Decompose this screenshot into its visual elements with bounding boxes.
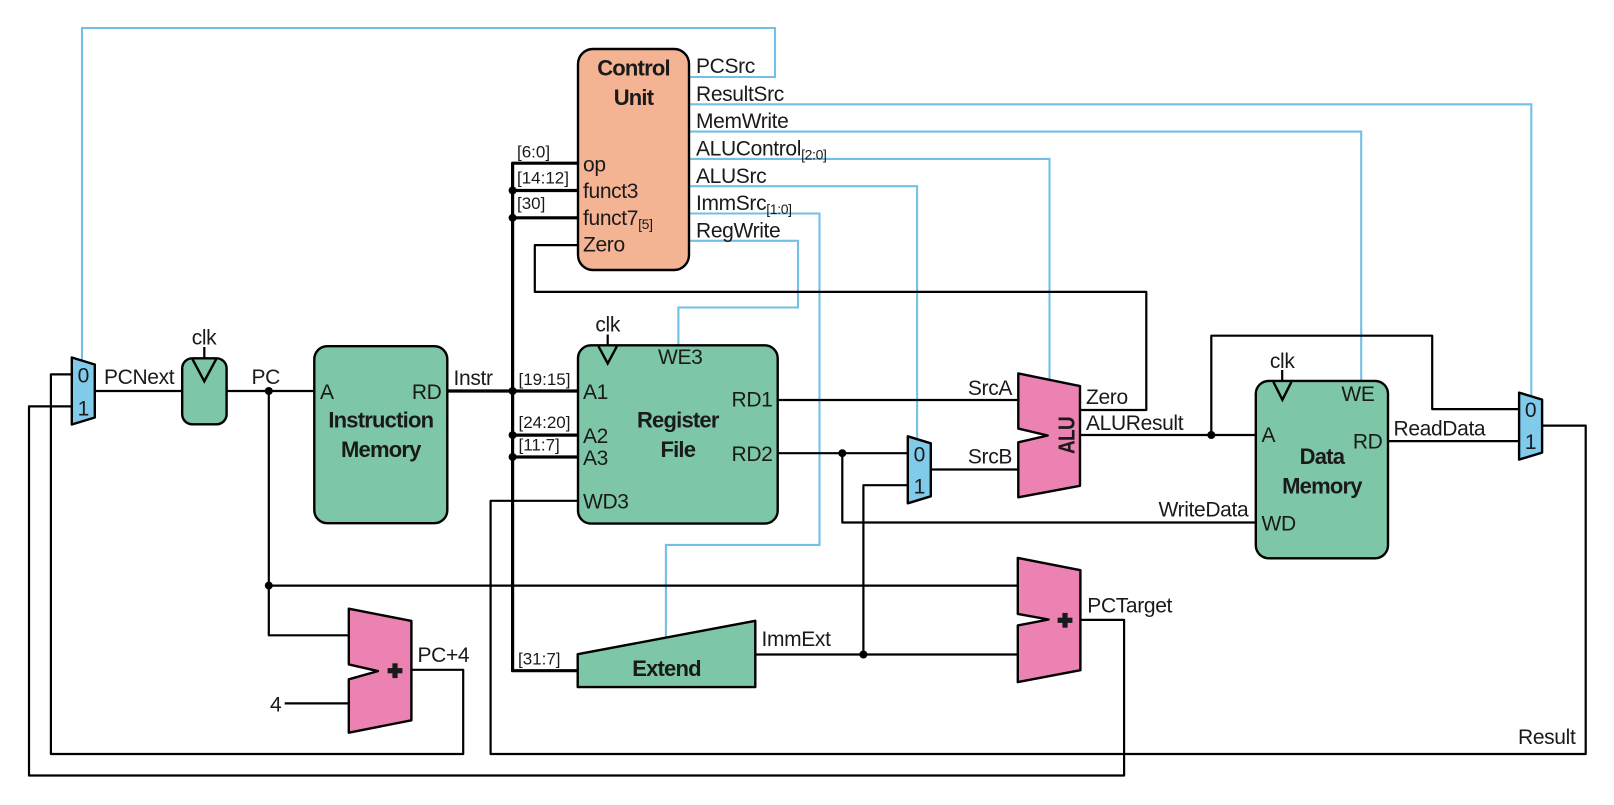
- svg-text:Extend: Extend: [632, 656, 701, 681]
- svg-text:[24:20]: [24:20]: [519, 413, 571, 432]
- svg-text:funct3: funct3: [583, 180, 638, 203]
- svg-text:RD: RD: [412, 381, 442, 404]
- svg-text:A: A: [1262, 424, 1276, 447]
- svg-text:0: 0: [78, 365, 89, 388]
- svg-text:PCSrc: PCSrc: [696, 55, 755, 78]
- svg-text:WE3: WE3: [658, 346, 702, 369]
- svg-text:[6:0]: [6:0]: [517, 143, 550, 162]
- svg-text:Result: Result: [1518, 726, 1576, 749]
- svg-text:A3: A3: [583, 447, 608, 470]
- svg-text:[14:12]: [14:12]: [517, 169, 569, 188]
- svg-text:RegWrite: RegWrite: [696, 220, 780, 243]
- svg-text:WD: WD: [1262, 513, 1296, 536]
- svg-text:PC: PC: [252, 366, 281, 389]
- svg-text:PC+4: PC+4: [418, 644, 470, 667]
- svg-text:WE: WE: [1341, 383, 1374, 406]
- svg-text:Control: Control: [597, 56, 670, 81]
- svg-text:[30]: [30]: [517, 194, 545, 213]
- svg-text:0: 0: [914, 443, 925, 466]
- svg-text:ResultSrc: ResultSrc: [696, 83, 784, 106]
- svg-text:op: op: [583, 154, 606, 177]
- svg-text:A1: A1: [583, 381, 608, 404]
- svg-text:Zero: Zero: [1086, 386, 1128, 409]
- svg-text:File: File: [660, 437, 695, 462]
- svg-text:SrcA: SrcA: [968, 377, 1012, 400]
- svg-text:PCNext: PCNext: [104, 366, 175, 389]
- svg-text:ALUSrc: ALUSrc: [696, 165, 766, 188]
- svg-text:Memory: Memory: [341, 437, 422, 462]
- svg-text:A: A: [320, 381, 334, 404]
- svg-text:4: 4: [270, 694, 282, 717]
- svg-text:1: 1: [78, 398, 89, 421]
- svg-text:clk: clk: [192, 327, 217, 350]
- svg-text:clk: clk: [1270, 350, 1295, 373]
- svg-text:Register: Register: [637, 408, 720, 433]
- svg-text:A2: A2: [583, 425, 608, 448]
- svg-text:ReadData: ReadData: [1394, 418, 1486, 441]
- svg-text:WriteData: WriteData: [1159, 499, 1249, 522]
- svg-text:MemWrite: MemWrite: [696, 110, 788, 133]
- svg-text:ImmExt: ImmExt: [762, 628, 832, 651]
- svg-text:RD2: RD2: [732, 443, 773, 466]
- svg-text:[11:7]: [11:7]: [519, 436, 560, 455]
- svg-text:clk: clk: [595, 314, 620, 337]
- svg-text:ALUResult: ALUResult: [1086, 412, 1184, 435]
- svg-text:RD: RD: [1353, 431, 1383, 454]
- svg-text:Instruction: Instruction: [328, 407, 433, 432]
- svg-text:1: 1: [1525, 431, 1536, 454]
- svg-text:1: 1: [914, 475, 925, 498]
- svg-text:ALU: ALU: [1054, 417, 1080, 454]
- svg-text:Data: Data: [1300, 444, 1346, 469]
- svg-text:Unit: Unit: [614, 85, 655, 110]
- svg-text:WD3: WD3: [583, 491, 629, 514]
- svg-text:SrcB: SrcB: [968, 446, 1012, 469]
- svg-text:Zero: Zero: [583, 234, 625, 257]
- svg-text:Memory: Memory: [1282, 474, 1363, 499]
- svg-text:Instr: Instr: [454, 367, 493, 390]
- svg-text:0: 0: [1525, 399, 1536, 422]
- svg-text:[19:15]: [19:15]: [519, 370, 571, 389]
- svg-text:[31:7]: [31:7]: [518, 650, 561, 669]
- svg-text:PCTarget: PCTarget: [1087, 595, 1172, 618]
- svg-text:RD1: RD1: [732, 389, 773, 412]
